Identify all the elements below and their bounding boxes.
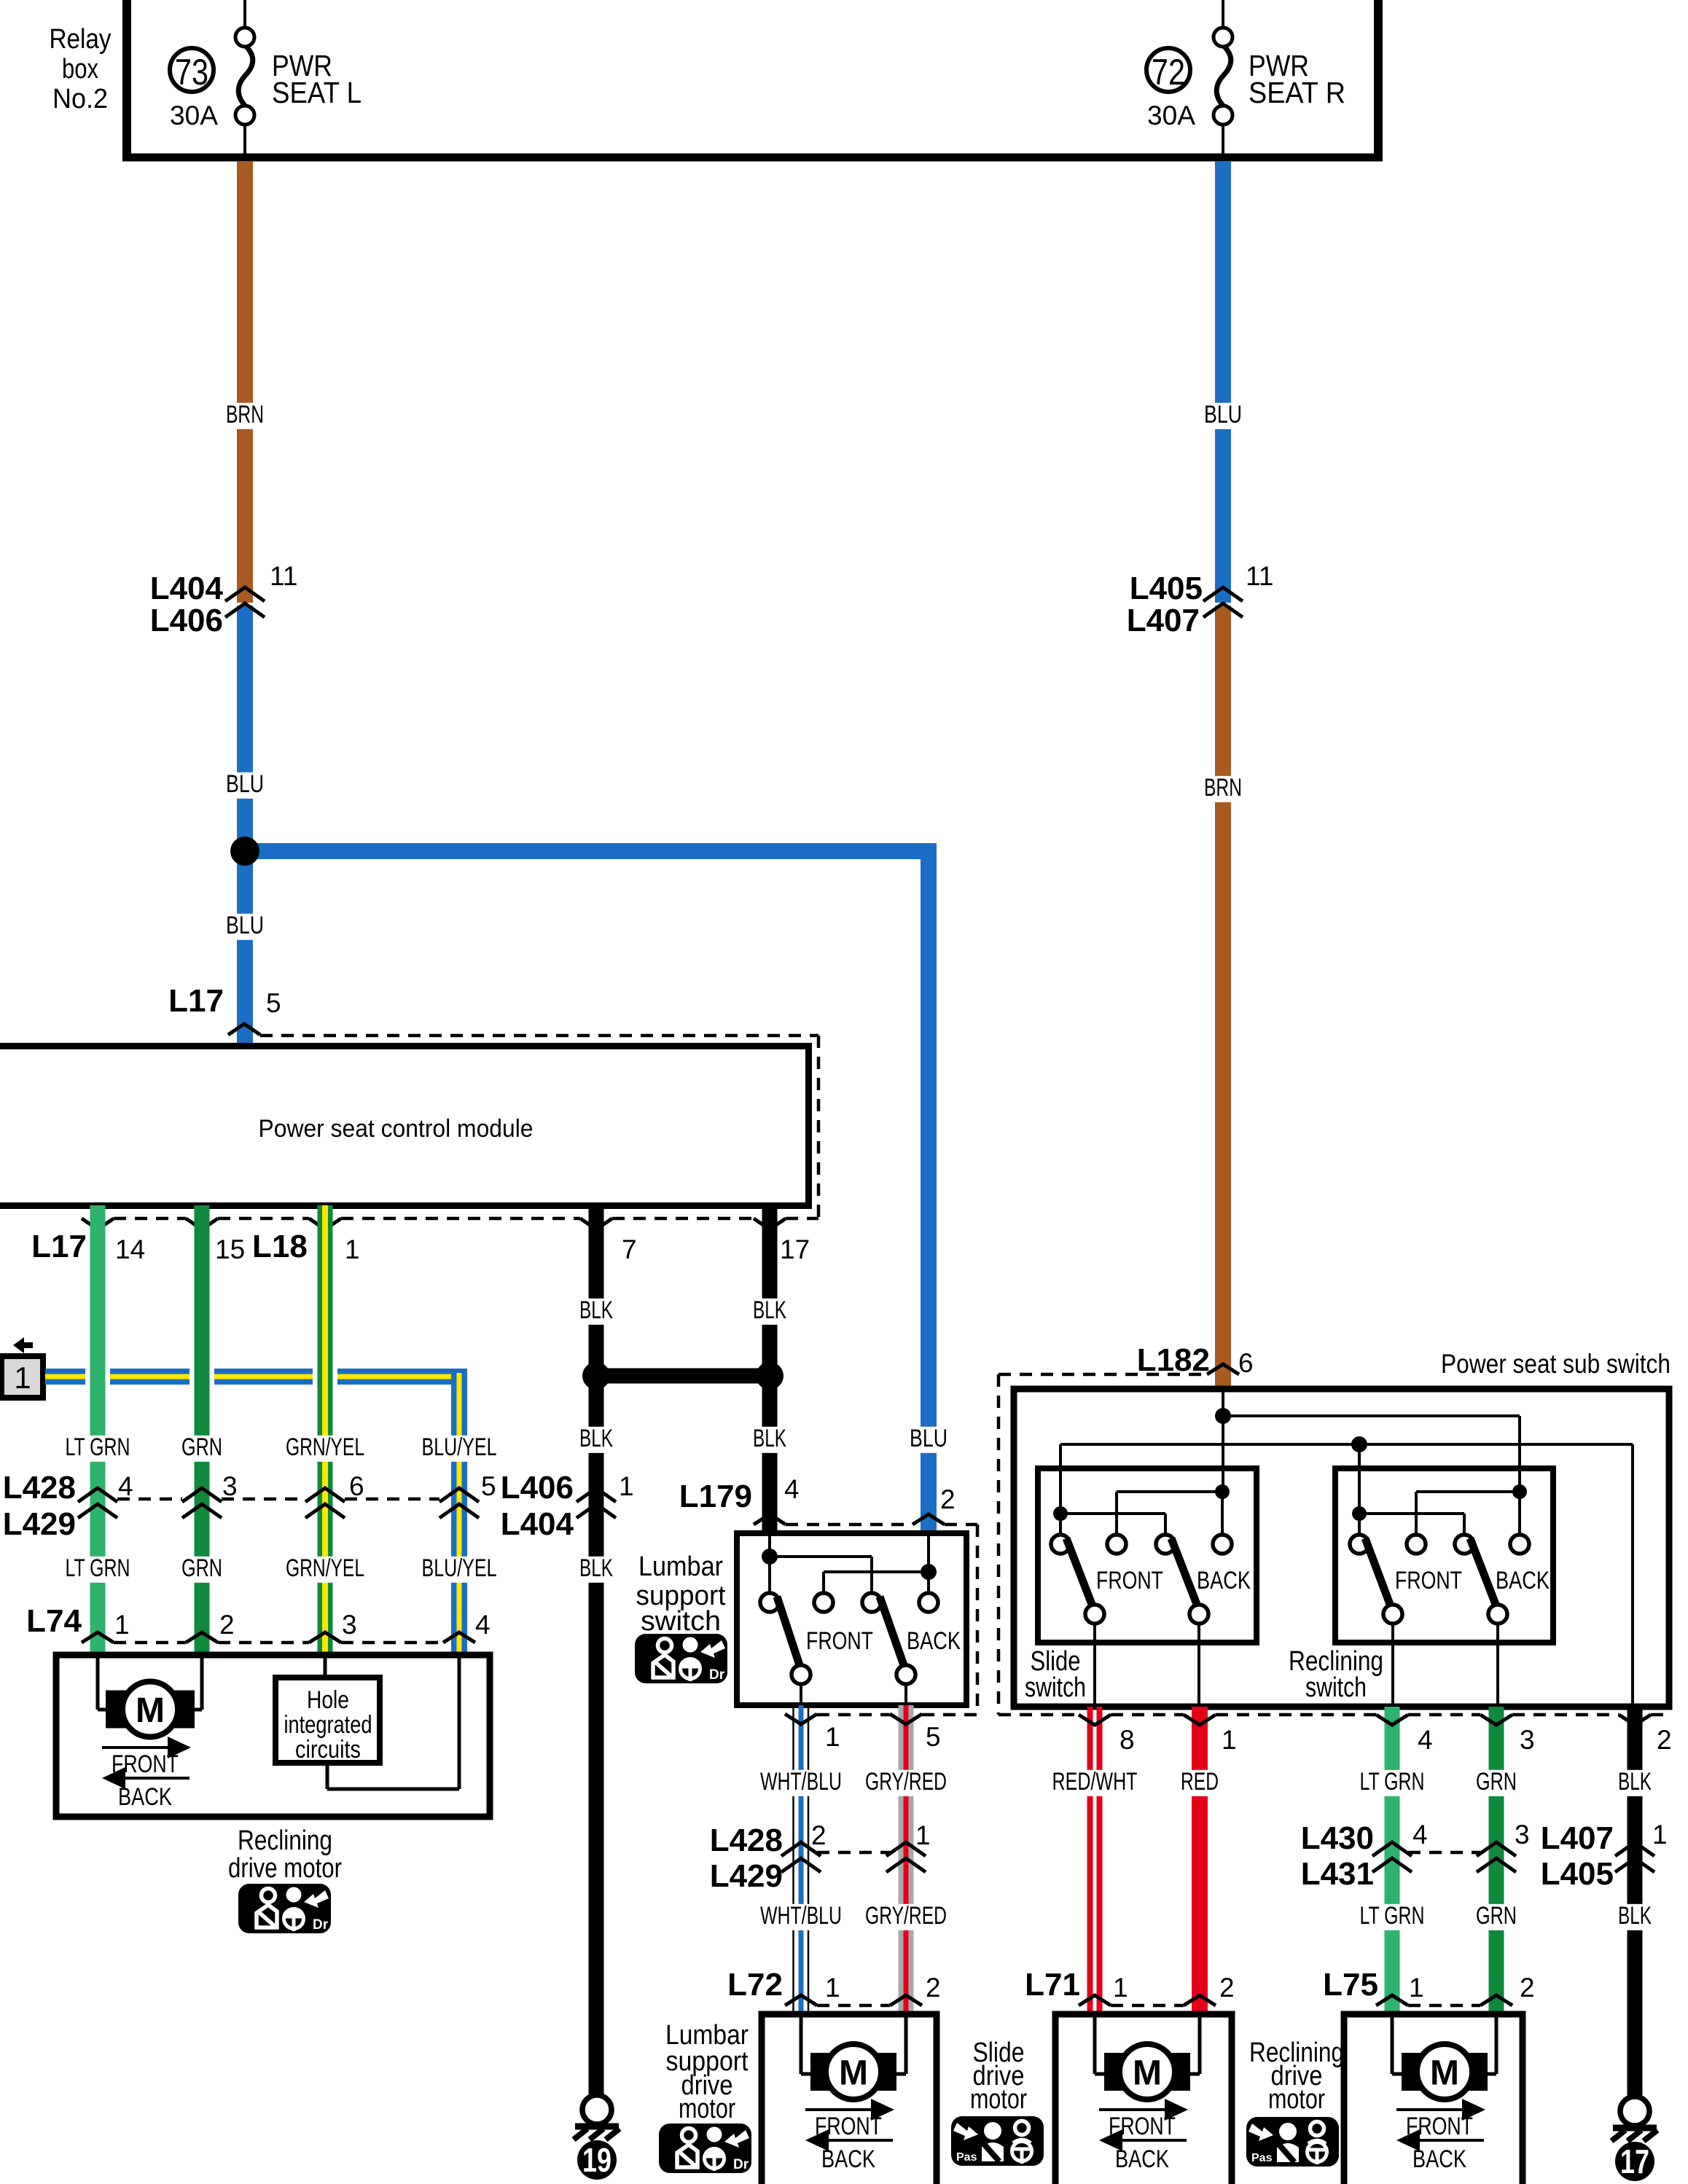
reclining drive motor L box (56, 1655, 490, 1817)
svg-text:BLK: BLK (579, 1425, 613, 1452)
svg-text:5: 5 (926, 1722, 941, 1752)
motor M slide (1104, 2044, 1190, 2099)
svg-text:GRN/YEL: GRN/YEL (286, 1554, 364, 1582)
wire BLK right (1628, 1707, 1643, 2096)
svg-text:RED: RED (1181, 1768, 1219, 1796)
wire BLU horizontal (245, 843, 937, 859)
svg-text:30A: 30A (170, 101, 218, 130)
svg-text:BLK: BLK (579, 1554, 613, 1582)
svg-text:L75: L75 (1323, 1967, 1378, 2003)
wire BLU left vertical (237, 606, 253, 1049)
label BRN right (1199, 774, 1247, 802)
label Relay box No.2 (50, 24, 112, 114)
motor M lumbar (810, 2044, 896, 2099)
svg-text:1: 1 (1222, 1725, 1237, 1755)
svg-text:Dr: Dr (733, 2157, 749, 2172)
svg-text:BACK: BACK (821, 2145, 875, 2173)
svg-text:No.2: No.2 (52, 84, 108, 114)
svg-text:30A: 30A (1147, 101, 1195, 130)
svg-text:L428: L428 (710, 1823, 783, 1858)
junction blue (230, 837, 259, 866)
svg-text:1: 1 (1409, 1973, 1424, 2003)
junction sub entry (1215, 1408, 1231, 1424)
svg-text:L407: L407 (1541, 1820, 1614, 1856)
sub switch distribution wiring (1060, 1389, 1633, 1704)
svg-text:Hole: Hole (307, 1686, 349, 1714)
lumbar switch blade BACK (880, 1597, 904, 1665)
svg-text:Lumbar: Lumbar (638, 1551, 723, 1582)
labels colors right row1 (1047, 1768, 1657, 1796)
page link box 1 (1, 1356, 43, 1398)
connector L71 pins 1 and 2 (1025, 1967, 1234, 2005)
label Slide drive motor (970, 2038, 1027, 2115)
label Slide switch (1025, 1646, 1086, 1703)
svg-text:BLK: BLK (753, 1425, 786, 1452)
wire RED/WHT (1087, 1707, 1103, 2014)
junction sub mid (1351, 1436, 1367, 1452)
svg-text:4: 4 (1412, 1820, 1428, 1850)
front back arrows slide (1099, 2099, 1188, 2173)
svg-text:6: 6 (349, 1471, 364, 1501)
svg-text:BLU/YEL: BLU/YEL (422, 1433, 497, 1461)
svg-text:3: 3 (1515, 1820, 1530, 1850)
svg-text:BACK: BACK (1412, 2145, 1466, 2173)
connector L428/L429 middle (710, 1820, 931, 1894)
connector L179 pins 4 and 2 (679, 1474, 977, 1715)
svg-text:GRY/RED: GRY/RED (865, 1768, 947, 1796)
slide switch lower terminals (1085, 1605, 1208, 1704)
ground symbol 17 (1611, 2097, 1657, 2141)
connector L74 (26, 1603, 490, 1643)
svg-text:L71: L71 (1025, 1967, 1080, 2003)
svg-text:1: 1 (345, 1234, 360, 1264)
connector L407/L405 pin 1 (1541, 1820, 1668, 1892)
svg-text:2: 2 (219, 1610, 235, 1640)
label BLU wire mid (904, 1425, 953, 1453)
svg-text:5: 5 (481, 1471, 496, 1501)
relay box No.2 (122, 0, 1383, 161)
slide switch blade FRONT (1066, 1538, 1093, 1606)
svg-text:3: 3 (342, 1610, 357, 1640)
svg-text:M: M (1430, 2054, 1459, 2092)
svg-text:SEAT R: SEAT R (1249, 76, 1345, 109)
label Reclining switch (1289, 1646, 1383, 1703)
svg-text:M: M (136, 1691, 165, 1730)
connector L405/L407 pin 11 (1127, 561, 1274, 638)
labels wire colors row1 (60, 1433, 502, 1462)
svg-text:L404: L404 (501, 1506, 574, 1542)
svg-text:Dr: Dr (709, 1667, 725, 1683)
labels FRONT BACK slide (1096, 1567, 1251, 1594)
svg-text:Reclining: Reclining (238, 1825, 332, 1856)
svg-text:Power seat control module: Power seat control module (259, 1115, 534, 1143)
slide switch terminals (1051, 1535, 1232, 1554)
fuse 73 30A PWR SEAT L (170, 28, 362, 130)
labels FRONT BACK reclining (1395, 1567, 1550, 1594)
svg-text:5: 5 (266, 988, 281, 1018)
svg-text:L17: L17 (31, 1229, 87, 1264)
slide switch blade BACK (1171, 1538, 1197, 1606)
svg-text:BLK: BLK (1618, 1902, 1652, 1930)
lumbar switch lower terminals (792, 1665, 915, 1705)
connector L428/L429 left (3, 1470, 496, 1542)
svg-text:WHT/BLU: WHT/BLU (760, 1902, 842, 1930)
junction slide t4 (1215, 1484, 1230, 1499)
svg-text:switch: switch (1305, 1672, 1367, 1703)
svg-text:BACK: BACK (118, 1783, 172, 1811)
labels wire colors row2 (60, 1554, 502, 1583)
svg-text:11: 11 (270, 561, 297, 591)
svg-text:Power seat sub switch: Power seat sub switch (1441, 1349, 1671, 1379)
svg-text:2: 2 (1219, 1973, 1235, 2003)
junction lumbar blu (921, 1564, 937, 1580)
wire WHT/BLU (794, 1705, 809, 2014)
wire fuse 73 leads (243, 0, 246, 157)
lumbar switch terminals (760, 1593, 938, 1612)
svg-text:15: 15 (215, 1234, 245, 1264)
label Lumbar support drive motor (665, 2020, 749, 2124)
wire BLU down to lumbar switch (921, 843, 937, 1533)
power seat sub switch box (1014, 1349, 1671, 1707)
label BLU left upper (221, 770, 269, 799)
hole integrated circuits wiring (325, 1655, 459, 1789)
svg-text:WHT/BLU: WHT/BLU (760, 1768, 842, 1796)
front back arrows L (102, 1737, 191, 1811)
junction BLK left (582, 1362, 610, 1390)
svg-text:BACK: BACK (1197, 1567, 1251, 1594)
svg-text:motor: motor (970, 2084, 1027, 2115)
lumbar support drive motor box (762, 2014, 937, 2184)
svg-text:GRN: GRN (181, 1554, 222, 1582)
svg-text:motor: motor (1268, 2084, 1325, 2115)
svg-text:BLU: BLU (910, 1425, 947, 1452)
icon Dr lumbar switch (635, 1634, 727, 1683)
svg-text:LT GRN: LT GRN (1360, 1768, 1425, 1796)
labels colors right row2 (1355, 1902, 1657, 1930)
svg-text:circuits: circuits (295, 1736, 361, 1764)
svg-text:L404: L404 (150, 571, 224, 606)
svg-text:FRONT: FRONT (1096, 1567, 1163, 1594)
wire BLU from fuse 72 (1215, 161, 1231, 603)
svg-text:3: 3 (1520, 1725, 1535, 1755)
svg-text:L429: L429 (3, 1506, 76, 1542)
svg-text:L72: L72 (727, 1967, 783, 2003)
connector lumbar bottom pins 1 and 5 (785, 1714, 977, 1752)
svg-text:LT GRN: LT GRN (66, 1554, 130, 1582)
svg-text:1: 1 (825, 1973, 840, 2003)
svg-text:Relay: Relay (50, 24, 112, 55)
svg-text:L74: L74 (26, 1603, 82, 1639)
svg-text:BACK: BACK (907, 1627, 961, 1655)
svg-text:L17: L17 (168, 983, 224, 1019)
svg-text:BLK: BLK (1618, 1768, 1652, 1796)
slide switch box (1038, 1468, 1257, 1643)
wire GRN/YEL pin 1 (318, 1205, 333, 1655)
junction recl t4 (1512, 1484, 1527, 1499)
svg-text:FRONT: FRONT (806, 1627, 873, 1655)
connector L17 pin 5 (168, 983, 281, 1035)
svg-text:L18: L18 (252, 1229, 308, 1264)
connector L182 pin 6 (999, 1342, 1254, 1715)
label BLU left lower (221, 912, 269, 940)
label BLU right (1199, 401, 1247, 429)
icon Dr lumbar motor (659, 2124, 751, 2173)
svg-text:8: 8 (1120, 1725, 1135, 1755)
slide motor wiring (1095, 2014, 1200, 2074)
wire BLK pin 17 (762, 1205, 778, 1533)
wire GRN pin 15 (195, 1205, 210, 1655)
svg-text:1: 1 (14, 1361, 31, 1395)
wire LT GRN pin 14 (90, 1205, 106, 1655)
ground symbol 19 (574, 2095, 620, 2140)
svg-text:Pas: Pas (1251, 2152, 1273, 2164)
svg-text:SEAT L: SEAT L (272, 76, 362, 109)
wire fuse 72 leads (1222, 0, 1224, 157)
power seat control module (0, 1036, 818, 1222)
svg-text:L430: L430 (1301, 1820, 1374, 1856)
svg-text:1: 1 (825, 1722, 840, 1752)
svg-text:Pas: Pas (956, 2151, 977, 2164)
svg-text:BLK: BLK (579, 1296, 613, 1324)
svg-text:BACK: BACK (1115, 2145, 1169, 2173)
svg-text:switch: switch (641, 1606, 721, 1637)
connector L75 pins 1 and 2 (1323, 1967, 1534, 2005)
label BRN left (221, 401, 269, 429)
svg-text:17: 17 (1620, 2142, 1649, 2180)
svg-text:11: 11 (1246, 561, 1273, 591)
svg-text:motor: motor (679, 2094, 735, 2124)
ground circle 17 (1615, 2142, 1654, 2181)
svg-text:2: 2 (940, 1484, 956, 1514)
svg-text:72: 72 (1152, 52, 1185, 93)
svg-text:73: 73 (175, 52, 208, 93)
ground circle 19 (577, 2140, 617, 2180)
svg-text:2: 2 (1657, 1725, 1672, 1755)
labels BLK row2 (574, 1425, 792, 1453)
fuse 72 30A PWR SEAT R (1146, 28, 1345, 130)
wire BRN right (1215, 606, 1231, 1386)
svg-text:BLK: BLK (753, 1296, 786, 1324)
svg-text:1: 1 (619, 1471, 634, 1501)
reclining switch blade BACK (1470, 1538, 1496, 1606)
svg-text:4: 4 (118, 1471, 133, 1501)
connector L182 bottom pins (999, 1715, 1672, 1755)
connector L17/L18 module pins (31, 1218, 818, 1264)
svg-text:BRN: BRN (226, 401, 264, 428)
wire BLK bridge (596, 1369, 770, 1384)
lumbar support switch box (737, 1533, 966, 1705)
front back arrows reclining R (1396, 2099, 1485, 2173)
svg-text:1: 1 (1113, 1973, 1128, 2003)
page link arrow (13, 1337, 33, 1353)
label Lumbar support switch (636, 1551, 726, 1637)
svg-text:GRY/RED: GRY/RED (865, 1902, 947, 1930)
svg-text:L406: L406 (150, 603, 223, 638)
junction recl t1 (1352, 1506, 1367, 1521)
slide switch wiring (1060, 1492, 1222, 1535)
svg-text:M: M (1133, 2054, 1162, 2092)
svg-text:drive motor: drive motor (228, 1853, 342, 1884)
svg-text:RED/WHT: RED/WHT (1052, 1768, 1138, 1796)
svg-text:L182: L182 (1137, 1342, 1210, 1378)
label BLK row3 (574, 1554, 618, 1583)
lumbar switch blade FRONT (777, 1597, 800, 1665)
icon Dr reclining L (238, 1884, 331, 1933)
connector L72 pins 1 and 2 (727, 1967, 940, 2005)
label Reclining drive motor R (1249, 2038, 1344, 2115)
svg-text:L179: L179 (679, 1479, 752, 1514)
labels FRONT BACK lumbar (806, 1627, 961, 1655)
labels BLK row1 (574, 1296, 792, 1325)
junction slide t1 (1053, 1506, 1068, 1521)
wire BLU/YEL (45, 1369, 467, 1655)
svg-text:1: 1 (915, 1820, 931, 1850)
svg-text:GRN: GRN (1476, 1902, 1517, 1930)
svg-text:M: M (839, 2054, 868, 2092)
connector L406/L404 pin 1 (501, 1470, 634, 1542)
reclining R motor wiring (1392, 2014, 1496, 2074)
svg-text:2: 2 (1520, 1973, 1535, 2003)
svg-text:LT GRN: LT GRN (1360, 1902, 1425, 1930)
svg-text:3: 3 (222, 1471, 238, 1501)
svg-text:4: 4 (1418, 1725, 1433, 1755)
svg-text:L405: L405 (1130, 571, 1203, 606)
svg-text:switch: switch (1025, 1672, 1086, 1703)
connector L430/L431 (1301, 1820, 1530, 1892)
svg-text:FRONT: FRONT (1395, 1567, 1462, 1594)
icon Pas reclining R (1246, 2117, 1339, 2167)
lumbar motor wiring (801, 2014, 906, 2074)
svg-text:L429: L429 (710, 1858, 783, 1894)
motor M reclining L (106, 1682, 195, 1737)
svg-text:2: 2 (926, 1973, 941, 2003)
svg-text:L431: L431 (1301, 1856, 1374, 1892)
svg-text:BLU/YEL: BLU/YEL (422, 1554, 497, 1582)
labels WHT/BLU GRY/RED row2 (755, 1902, 952, 1930)
wire GRN right (1489, 1707, 1504, 2014)
svg-text:19: 19 (582, 2141, 611, 2179)
motor M reclining R (1402, 2044, 1488, 2099)
svg-text:1: 1 (114, 1610, 130, 1640)
svg-text:2: 2 (811, 1820, 827, 1850)
reclining switch lower terminals (1383, 1605, 1507, 1704)
svg-text:7: 7 (622, 1234, 637, 1264)
wire LT GRN right (1385, 1707, 1400, 2014)
svg-text:6: 6 (1238, 1348, 1254, 1378)
junction lumbar blk (762, 1549, 778, 1565)
wire BLK pin 7 (589, 1205, 604, 2094)
wire GRY/RED (899, 1705, 914, 2014)
reclining switch wiring (1359, 1492, 1520, 1535)
svg-text:BRN: BRN (1204, 774, 1242, 802)
svg-text:BLU: BLU (1204, 401, 1242, 428)
svg-text:GRN: GRN (1476, 1768, 1517, 1796)
wire RED (1192, 1707, 1208, 2014)
svg-text:4: 4 (784, 1474, 800, 1504)
svg-text:4: 4 (475, 1610, 491, 1640)
reclining switch box (1335, 1468, 1553, 1643)
svg-text:BLU: BLU (226, 912, 264, 939)
connector L404/L406 pin 11 (150, 561, 298, 638)
label Reclining drive motor L (228, 1825, 342, 1884)
svg-text:GRN: GRN (181, 1433, 222, 1461)
icon Pas slide (951, 2116, 1044, 2166)
slide drive motor box (1055, 2014, 1232, 2184)
svg-text:L407: L407 (1127, 603, 1200, 638)
reclining drive motor L wiring (98, 1655, 202, 1710)
svg-text:BACK: BACK (1496, 1567, 1550, 1594)
svg-text:L405: L405 (1541, 1856, 1614, 1892)
hole integrated circuits box (276, 1678, 380, 1764)
svg-text:L406: L406 (501, 1470, 574, 1506)
svg-text:LT GRN: LT GRN (66, 1433, 130, 1461)
reclining switch blade FRONT (1365, 1538, 1391, 1606)
reclining switch terminals (1350, 1535, 1529, 1554)
svg-text:Dr: Dr (313, 1917, 329, 1933)
svg-text:14: 14 (115, 1234, 145, 1264)
svg-text:GRN/YEL: GRN/YEL (286, 1433, 364, 1461)
svg-text:BLU: BLU (226, 770, 264, 798)
svg-text:17: 17 (780, 1234, 810, 1264)
svg-text:L428: L428 (3, 1470, 76, 1506)
front back arrows lumbar (805, 2099, 894, 2173)
svg-text:box: box (62, 54, 98, 85)
svg-text:integrated: integrated (284, 1711, 372, 1739)
junction BLK right (756, 1362, 784, 1390)
lumbar switch internal wiring (770, 1533, 929, 1593)
labels WHT/BLU GRY/RED row1 (755, 1768, 952, 1796)
svg-text:1: 1 (1652, 1820, 1668, 1850)
reclining drive motor R box (1344, 2014, 1523, 2184)
wire BRN from fuse 73 (237, 161, 253, 603)
